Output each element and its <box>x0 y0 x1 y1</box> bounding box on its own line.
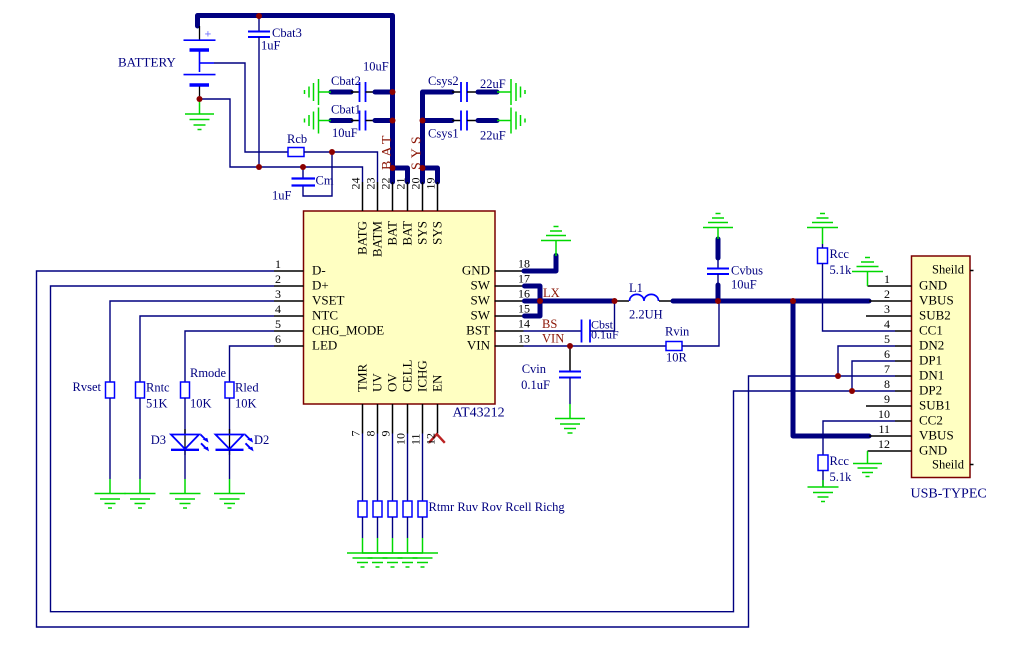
pin 4 CC1 stub <box>895 330 912 332</box>
junction Cvin-VIN <box>567 343 573 349</box>
svg-text:2.2UH: 2.2UH <box>629 308 663 322</box>
pin 12 GND stub <box>868 450 912 452</box>
pin 19 SYS stub <box>437 182 439 211</box>
ground Cvin <box>555 404 585 433</box>
wire Cvbus plate lead bottom <box>717 274 719 285</box>
svg-text:4: 4 <box>275 302 281 316</box>
pin 17 SW stub <box>495 285 524 287</box>
svg-text:+: + <box>205 27 212 41</box>
junction Cbat3 bottom <box>256 164 262 170</box>
ground pin 1 (inverted) <box>852 258 883 287</box>
wire Cvin bottom lead <box>569 378 571 405</box>
svg-text:BST: BST <box>466 323 490 338</box>
ground Csys1 (rotated right) <box>497 108 525 134</box>
svg-text:DP1: DP1 <box>919 353 942 368</box>
svg-text:14: 14 <box>518 317 530 331</box>
junction VBUS branch <box>790 298 796 304</box>
wire Rvin to VBUS <box>682 301 719 346</box>
wire Rtmr to ground <box>362 517 364 538</box>
svg-text:CELL: CELL <box>400 359 415 392</box>
svg-text:OV: OV <box>385 373 400 392</box>
ground pin 12 <box>853 451 882 477</box>
capacitor Cvin <box>559 372 581 378</box>
pin 15 SW stub <box>495 315 524 317</box>
wire thick SYS hook to pin 19 <box>423 168 438 182</box>
capacitor Cbat2 <box>331 82 393 102</box>
svg-text:10uF: 10uF <box>332 126 358 140</box>
wire OV down <box>392 434 394 502</box>
pin 3 SUB2 stub <box>866 315 912 317</box>
pin 11 VBUS stub <box>869 435 912 437</box>
svg-text:SUB1: SUB1 <box>919 398 951 413</box>
wire ICHG down <box>422 434 424 502</box>
resistor Rled <box>225 382 234 398</box>
svg-text:2: 2 <box>884 287 890 301</box>
pin Sheild top stub <box>970 270 974 272</box>
svg-text:SW: SW <box>471 308 491 323</box>
svg-text:VIN: VIN <box>542 332 564 346</box>
svg-text:5: 5 <box>275 317 281 331</box>
wire Rcc bottom to ground <box>822 471 824 487</box>
resistor Rcc bottom <box>818 455 828 471</box>
wire thick VBUS branch down to pin 11 <box>793 301 869 436</box>
svg-text:22uF: 22uF <box>480 129 506 143</box>
svg-text:Rvset: Rvset <box>73 380 102 394</box>
wire NTC down <box>140 316 274 382</box>
pin 21 BAT stub <box>407 182 409 211</box>
pin 10 CC2 stub <box>895 420 912 422</box>
svg-text:13: 13 <box>518 332 530 346</box>
wire Rcell to ground <box>407 517 409 538</box>
svg-text:Rled: Rled <box>235 381 259 395</box>
IC U1 AT43212 <box>304 211 496 404</box>
wire L1 right lead <box>659 300 673 302</box>
svg-text:SW: SW <box>471 278 491 293</box>
svg-text:7: 7 <box>349 431 363 437</box>
ground Rvset <box>95 479 126 508</box>
wire VIN run <box>524 345 667 347</box>
pin 20 SYS stub <box>422 182 424 211</box>
svg-text:VSET: VSET <box>312 293 345 308</box>
ground Rcc bottom <box>808 480 839 502</box>
pin 1 GND stub <box>868 285 912 287</box>
connector J1 USB-TYPEC body <box>912 256 971 478</box>
pin 13 VIN stub <box>495 345 524 347</box>
pin 2 D+ stub <box>274 285 304 287</box>
resistor Rcb <box>288 148 304 157</box>
pin 14 BST stub <box>495 330 524 332</box>
wire thick Cvbus upper stub <box>716 239 721 258</box>
ground Richg <box>407 538 438 567</box>
wire Cvin top lead <box>569 346 571 372</box>
svg-text:SYS: SYS <box>430 221 445 245</box>
svg-text:1uF: 1uF <box>261 39 281 53</box>
svg-text:AT43212: AT43212 <box>453 406 505 421</box>
no-connect marker on pin 12 <box>429 434 445 443</box>
wire UV down <box>377 434 379 502</box>
resistor Rvset <box>106 382 115 398</box>
svg-text:DP2: DP2 <box>919 383 942 398</box>
svg-text:7: 7 <box>884 362 890 376</box>
battery BT1 <box>184 26 216 99</box>
svg-text:VBUS: VBUS <box>919 428 954 443</box>
junction battery negative <box>197 96 203 102</box>
capacitor Cbst <box>582 320 591 343</box>
wire battery mid tap to Rcb <box>214 63 288 152</box>
svg-text:0.1uF: 0.1uF <box>521 378 550 392</box>
resistor Rmode <box>181 382 190 398</box>
wire thick Csys1 stub <box>423 118 453 123</box>
ground Cbat2 (rotated left) <box>305 79 332 105</box>
svg-text:5: 5 <box>884 332 890 346</box>
resistor Rcc top <box>818 248 828 264</box>
junction BAT hook <box>390 165 396 171</box>
pin 16 SW stub <box>495 300 524 302</box>
wire Cbst to LX <box>590 301 615 331</box>
junction LX bracket <box>537 298 543 304</box>
pin 23 BATM stub <box>377 182 379 211</box>
wire D- loop (pin1 to DN1/DN2) <box>37 271 896 627</box>
junction Cbat3 top <box>256 13 262 19</box>
svg-text:GND: GND <box>462 263 490 278</box>
wire thick Cvbus lower stub <box>716 285 721 299</box>
svg-text:12: 12 <box>424 433 438 445</box>
wire Rvset to ground <box>109 398 111 479</box>
pin 7 DN1 stub <box>895 375 912 377</box>
pin 6 LED stub <box>274 345 304 347</box>
ground Ruv <box>362 538 393 567</box>
svg-text:18: 18 <box>518 257 530 271</box>
wire Cvbus plate lead top <box>717 258 719 268</box>
svg-text:VBUS: VBUS <box>919 293 954 308</box>
wire Rmode to D3 <box>184 398 186 434</box>
svg-text:LX: LX <box>543 286 560 300</box>
wire LED pin down <box>230 346 275 382</box>
wire D2 to ground <box>229 450 231 479</box>
pin 22 BAT stub <box>392 182 394 211</box>
svg-text:9: 9 <box>379 431 393 437</box>
capacitor Cm <box>292 179 316 186</box>
svg-text:11: 11 <box>878 422 890 436</box>
svg-text:GND: GND <box>919 443 947 458</box>
svg-text:12: 12 <box>878 437 890 451</box>
svg-text:CHG_MODE: CHG_MODE <box>312 323 384 338</box>
svg-text:22uF: 22uF <box>480 77 506 91</box>
svg-text:SYS: SYS <box>410 132 425 170</box>
svg-text:5.1k: 5.1k <box>830 470 853 484</box>
svg-text:6: 6 <box>884 347 890 361</box>
junction Cbat2-BAT <box>390 89 396 95</box>
wire Rntc to ground <box>139 398 141 479</box>
capacitor Csys2 <box>452 82 497 102</box>
svg-text:DN1: DN1 <box>919 368 944 383</box>
ground D3 <box>170 479 201 508</box>
svg-text:NTC: NTC <box>312 308 338 323</box>
svg-text:BATG: BATG <box>355 221 370 255</box>
pin 5 DN2 stub <box>895 345 912 347</box>
svg-text:Cbat2: Cbat2 <box>331 74 361 88</box>
resistor Rcell <box>403 501 412 517</box>
ground Rntc <box>125 479 156 508</box>
wire CELL down <box>407 434 409 502</box>
svg-text:Rtmr Ruv Rov Rcell Richg: Rtmr Ruv Rov Rcell Richg <box>429 500 566 514</box>
wire Rcc to CC1 <box>823 264 896 332</box>
svg-text:CC2: CC2 <box>919 413 943 428</box>
ground Csys2 (rotated right) <box>497 79 525 105</box>
wire thick SW bracket LX <box>525 286 541 316</box>
svg-text:Csys2: Csys2 <box>428 74 459 88</box>
pin 11 ICHG stub <box>422 404 424 434</box>
svg-text:VIN: VIN <box>467 338 491 353</box>
junction SYS hook <box>420 165 426 171</box>
svg-text:10uF: 10uF <box>363 60 389 74</box>
svg-text:5.1k: 5.1k <box>830 263 853 277</box>
LED D3 <box>171 429 209 455</box>
pin 18 GND stub <box>495 270 524 272</box>
wire thick BAT hook to pin 21 <box>393 168 408 182</box>
svg-text:10K: 10K <box>190 397 212 411</box>
resistor Ruv <box>373 501 382 517</box>
wire Rcc top lead <box>822 244 824 248</box>
ground pin 18 (inverted) <box>541 227 571 257</box>
junction Cbat1-BAT <box>390 118 396 124</box>
wire CC2 to Rcc bottom <box>823 421 895 455</box>
wire D3 to ground <box>184 450 186 479</box>
resistor Richg <box>418 501 427 517</box>
wire battery negative to BATG pin 24 <box>200 99 363 182</box>
pin 3 VSET stub <box>274 300 304 302</box>
wire Ruv to ground <box>377 517 379 538</box>
svg-text:Cvbus: Cvbus <box>731 264 763 278</box>
capacitor Cbat3 <box>248 16 270 167</box>
wire Cm top lead <box>302 167 304 178</box>
svg-text:Sheild: Sheild <box>932 263 965 277</box>
ground Cvbus (inverted) <box>703 214 733 240</box>
wire Cm bottom loop <box>303 152 332 196</box>
ground Rtmr <box>347 538 378 567</box>
capacitor Csys1 <box>452 111 497 131</box>
svg-text:Sheild: Sheild <box>932 458 965 472</box>
svg-text:20: 20 <box>409 178 423 190</box>
svg-text:D3: D3 <box>151 433 166 447</box>
wire thick VBUS main <box>673 299 869 304</box>
pin 9 OV stub <box>392 404 394 434</box>
pin 6 DP1 stub <box>895 360 912 362</box>
wire BST to Cbst <box>524 330 582 332</box>
svg-text:ICHG: ICHG <box>415 360 430 392</box>
svg-text:Rcc: Rcc <box>830 247 850 261</box>
pin 8 UV stub <box>377 404 379 434</box>
svg-text:LED: LED <box>312 338 337 353</box>
junction Rcb right <box>329 149 335 155</box>
svg-text:EN: EN <box>430 374 445 392</box>
svg-text:10K: 10K <box>235 397 257 411</box>
svg-text:L1: L1 <box>629 281 643 295</box>
svg-text:1: 1 <box>884 272 890 286</box>
svg-text:24: 24 <box>349 178 363 190</box>
svg-text:BATM: BATM <box>370 221 385 258</box>
ground battery <box>185 99 214 130</box>
svg-text:USB-TYPEC: USB-TYPEC <box>911 487 987 502</box>
wire TMR down <box>362 434 364 502</box>
svg-text:23: 23 <box>364 178 378 190</box>
wire thick BAT+ top bus <box>198 16 393 183</box>
pin 1 D- stub <box>274 270 304 272</box>
junction Cm top <box>300 164 306 170</box>
svg-text:Rmode: Rmode <box>190 366 227 380</box>
pin 7 TMR stub <box>362 404 364 434</box>
svg-text:D2: D2 <box>254 433 269 447</box>
svg-text:11: 11 <box>409 433 423 445</box>
wire thick LX run <box>525 299 615 304</box>
resistor Rvin <box>666 342 682 351</box>
svg-text:SW: SW <box>471 293 491 308</box>
svg-text:51K: 51K <box>146 397 168 411</box>
svg-text:CC1: CC1 <box>919 323 943 338</box>
svg-text:Rntc: Rntc <box>146 381 170 395</box>
svg-text:BS: BS <box>542 317 557 331</box>
svg-text:Cm: Cm <box>316 174 334 188</box>
wire Richg to ground <box>422 517 424 538</box>
pin 9 SUB1 stub <box>866 405 912 407</box>
svg-text:21: 21 <box>394 178 408 190</box>
svg-text:BAT: BAT <box>400 221 415 246</box>
wire L1 left lead <box>617 300 629 302</box>
svg-text:BAT: BAT <box>385 221 400 246</box>
junction Csys1-SYS <box>420 118 426 124</box>
svg-text:Rcc: Rcc <box>830 454 850 468</box>
svg-text:8: 8 <box>884 377 890 391</box>
wire Rled to D2 <box>229 398 231 434</box>
svg-text:19: 19 <box>424 178 438 190</box>
svg-text:Cvin: Cvin <box>522 362 547 376</box>
svg-text:16: 16 <box>518 287 530 301</box>
svg-text:10uF: 10uF <box>731 278 757 292</box>
svg-text:Rvin: Rvin <box>665 325 690 339</box>
svg-text:TMR: TMR <box>355 364 370 393</box>
pin 12 EN stub <box>437 404 439 434</box>
pin 24 BATG stub <box>362 182 364 211</box>
resistor Rntc <box>136 382 145 398</box>
resistor Rov <box>388 501 397 517</box>
svg-text:15: 15 <box>518 302 530 316</box>
svg-text:BAT: BAT <box>380 132 395 170</box>
svg-text:8: 8 <box>364 431 378 437</box>
ground Rcc top (inverted) <box>807 214 838 245</box>
svg-text:SYS: SYS <box>415 221 430 245</box>
svg-text:D+: D+ <box>312 278 329 293</box>
wire VSET down <box>110 301 274 382</box>
wire thick pin18 GND to ground <box>524 256 556 272</box>
svg-text:2: 2 <box>275 272 281 286</box>
wire CHG_MODE down <box>185 331 274 382</box>
wire DP1 to DP2 <box>852 361 895 391</box>
wire thick SYS vertical <box>423 92 453 182</box>
svg-text:4: 4 <box>884 317 890 331</box>
svg-text:10R: 10R <box>666 351 688 365</box>
svg-text:1uF: 1uF <box>272 189 292 203</box>
inductor L1 <box>630 294 659 301</box>
wire Rcb to pin 23 BATM <box>304 152 378 182</box>
svg-text:6: 6 <box>275 332 281 346</box>
capacitor Cvbus <box>707 269 729 275</box>
junction DP2-DP1 <box>849 388 855 394</box>
svg-text:10: 10 <box>878 407 890 421</box>
ground Rcell <box>392 538 423 567</box>
svg-text:Cbat1: Cbat1 <box>331 103 361 117</box>
pin 8 DP2 stub <box>895 390 912 392</box>
LED D2 <box>216 429 254 455</box>
svg-text:3: 3 <box>275 287 281 301</box>
capacitor Cbat1 <box>331 111 393 131</box>
resistor Rtmr <box>358 501 367 517</box>
svg-text:10: 10 <box>394 433 408 445</box>
svg-text:22: 22 <box>379 178 393 190</box>
pin 10 CELL stub <box>407 404 409 434</box>
svg-text:Rcb: Rcb <box>287 132 307 146</box>
svg-text:9: 9 <box>884 392 890 406</box>
svg-text:Csys1: Csys1 <box>428 127 459 141</box>
pin Sheild bottom stub <box>970 464 974 466</box>
junction Cvbus-VBUS <box>715 298 721 304</box>
ground Cbat1 (rotated left) <box>305 108 332 134</box>
wire Rov to ground <box>392 517 394 538</box>
svg-text:UV: UV <box>370 373 385 392</box>
svg-text:D-: D- <box>312 263 326 278</box>
junction Cbst-LX <box>612 298 618 304</box>
ground D2 <box>214 479 245 508</box>
svg-text:GND: GND <box>919 278 947 293</box>
svg-text:3: 3 <box>884 302 890 316</box>
wire D+ loop (pin2 to DP2/DP1) <box>51 286 896 612</box>
svg-text:SUB2: SUB2 <box>919 308 951 323</box>
svg-text:BATTERY: BATTERY <box>118 55 176 70</box>
svg-text:17: 17 <box>518 272 530 286</box>
pin 5 CHG_MODE stub <box>274 330 304 332</box>
svg-text:DN2: DN2 <box>919 338 944 353</box>
junction DN1-DN2 <box>835 373 841 379</box>
svg-text:1: 1 <box>275 257 281 271</box>
pin 4 NTC stub <box>274 315 304 317</box>
pin 2 VBUS stub <box>869 300 912 302</box>
wire DN2 to DN1 <box>838 346 895 376</box>
ground Rov <box>377 538 408 567</box>
